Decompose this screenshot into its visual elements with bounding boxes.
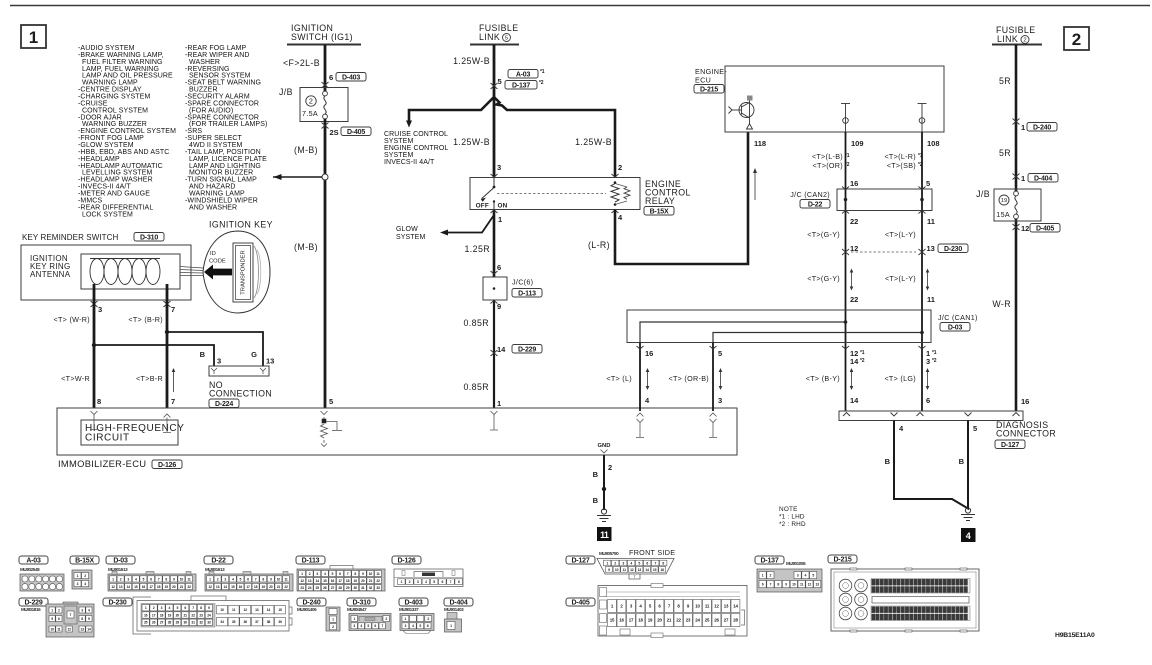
svg-text:22: 22 xyxy=(376,579,380,583)
svg-text:21: 21 xyxy=(180,585,184,589)
svg-text:<T> (LG): <T> (LG) xyxy=(884,374,916,383)
svg-text:33: 33 xyxy=(207,621,211,625)
svg-text:18: 18 xyxy=(157,585,161,589)
svg-text:D-224: D-224 xyxy=(215,401,233,408)
svg-text:ON: ON xyxy=(498,203,508,210)
svg-text:D-310: D-310 xyxy=(352,600,370,607)
svg-text:D-126: D-126 xyxy=(397,558,415,565)
svg-text:25: 25 xyxy=(705,618,710,623)
svg-text:11: 11 xyxy=(57,627,60,631)
svg-text:38: 38 xyxy=(267,620,271,624)
svg-text:<T>(L-R): <T>(L-R) xyxy=(884,152,916,161)
svg-text:J/B: J/B xyxy=(279,87,293,97)
svg-text:LAMP AND OIL PRESSURE: LAMP AND OIL PRESSURE xyxy=(82,73,173,80)
svg-text:26: 26 xyxy=(152,621,156,625)
svg-text:16: 16 xyxy=(850,179,858,188)
svg-text:(FOR TRAILER LAMPS): (FOR TRAILER LAMPS) xyxy=(189,121,267,128)
svg-text:16: 16 xyxy=(661,568,665,572)
svg-text:15A: 15A xyxy=(996,210,1010,219)
svg-text:D-22: D-22 xyxy=(211,558,226,565)
svg-text:WARNING LAMP: WARNING LAMP xyxy=(189,191,245,198)
svg-text:12: 12 xyxy=(850,244,858,253)
svg-text:13: 13 xyxy=(724,603,729,608)
svg-text:18: 18 xyxy=(346,579,350,583)
svg-text:11: 11 xyxy=(376,572,379,576)
svg-text:D-403: D-403 xyxy=(342,75,360,82)
svg-text:30: 30 xyxy=(354,586,358,590)
svg-text:14: 14 xyxy=(316,579,320,583)
svg-text:32: 32 xyxy=(199,621,203,625)
svg-text:SWITCH (IG1): SWITCH (IG1) xyxy=(291,32,353,42)
svg-text:35: 35 xyxy=(232,620,236,624)
svg-text:30: 30 xyxy=(184,621,188,625)
svg-text:16: 16 xyxy=(142,585,146,589)
svg-text:D-403: D-403 xyxy=(404,600,422,607)
svg-text:IMMOBILIZER-ECU: IMMOBILIZER-ECU xyxy=(58,458,146,469)
svg-text:13: 13 xyxy=(266,357,274,366)
svg-text:*1: *1 xyxy=(932,350,937,356)
svg-text:D-229: D-229 xyxy=(518,347,536,354)
svg-text:CIRCUIT: CIRCUIT xyxy=(85,433,130,444)
svg-text:16: 16 xyxy=(619,618,624,623)
svg-text:14: 14 xyxy=(224,585,228,589)
svg-text:9: 9 xyxy=(497,302,501,311)
svg-text:4: 4 xyxy=(966,531,971,541)
svg-text:5R: 5R xyxy=(999,148,1011,158)
svg-text:KEY REMINDER SWITCH: KEY REMINDER SWITCH xyxy=(22,233,119,242)
svg-text:21: 21 xyxy=(277,585,281,589)
svg-text:A-03: A-03 xyxy=(26,558,41,565)
svg-text:D-405: D-405 xyxy=(571,600,589,607)
svg-text:12: 12 xyxy=(111,585,115,589)
svg-text:6: 6 xyxy=(497,263,501,272)
svg-text:MONITOR BUZZER: MONITOR BUZZER xyxy=(189,170,253,177)
svg-text:-TAIL LAMP, POSITION: -TAIL LAMP, POSITION xyxy=(185,149,261,156)
svg-text:17: 17 xyxy=(149,585,153,589)
svg-text:28: 28 xyxy=(733,618,738,623)
svg-text:10: 10 xyxy=(369,572,373,576)
svg-text:MU802548: MU802548 xyxy=(20,567,40,572)
svg-text:*1 : LHD: *1 : LHD xyxy=(779,514,805,521)
svg-text:11: 11 xyxy=(927,217,935,226)
svg-text:D-113: D-113 xyxy=(518,291,536,298)
svg-text:17: 17 xyxy=(629,618,634,623)
svg-text:<T>(L-Y): <T>(L-Y) xyxy=(885,230,916,239)
svg-text:(L-R): (L-R) xyxy=(588,240,610,250)
svg-text:-SPARE CONNECTOR: -SPARE CONNECTOR xyxy=(185,100,259,107)
svg-text:MU805790: MU805790 xyxy=(599,551,619,556)
svg-text:19: 19 xyxy=(648,618,653,623)
svg-text:3: 3 xyxy=(217,357,221,366)
svg-text:D-03: D-03 xyxy=(948,325,963,332)
svg-text:*1: *1 xyxy=(860,350,865,356)
svg-text:G: G xyxy=(251,350,257,359)
svg-text:D-230: D-230 xyxy=(944,246,962,253)
svg-text:19: 19 xyxy=(165,585,169,589)
svg-text:1: 1 xyxy=(498,215,502,224)
svg-text:MU804547: MU804547 xyxy=(347,607,367,612)
svg-text:5: 5 xyxy=(718,349,722,358)
svg-text:12: 12 xyxy=(630,568,634,572)
svg-text:*2: *2 xyxy=(539,80,544,86)
svg-text:WARNING BUZZER: WARNING BUZZER xyxy=(82,121,147,128)
svg-text:24: 24 xyxy=(308,586,312,590)
svg-text:13: 13 xyxy=(216,585,220,589)
svg-text:D-310: D-310 xyxy=(140,235,158,242)
svg-text:A-03: A-03 xyxy=(516,72,531,79)
svg-text:D-22: D-22 xyxy=(808,202,823,209)
svg-text:7: 7 xyxy=(171,305,175,314)
svg-text:18: 18 xyxy=(638,618,643,623)
svg-text:W-R: W-R xyxy=(992,299,1011,309)
svg-text:20: 20 xyxy=(269,585,273,589)
svg-text:11: 11 xyxy=(232,608,235,612)
svg-text:MU801403: MU801403 xyxy=(444,607,464,612)
svg-text:D-230: D-230 xyxy=(108,600,126,607)
svg-text:-REAR WIPER AND: -REAR WIPER AND xyxy=(185,52,250,59)
svg-text:25: 25 xyxy=(316,586,320,590)
svg-text:SYSTEM: SYSTEM xyxy=(384,138,413,145)
svg-text:<T>(L-B): <T>(L-B) xyxy=(812,152,843,161)
svg-text:14: 14 xyxy=(645,568,649,572)
svg-text:23: 23 xyxy=(199,613,203,617)
svg-text:14: 14 xyxy=(267,608,271,612)
svg-text:108: 108 xyxy=(927,139,940,148)
svg-text:10: 10 xyxy=(792,583,796,587)
svg-text:10: 10 xyxy=(615,568,619,572)
svg-text:B: B xyxy=(593,496,599,505)
svg-text:-BRAKE WARNING LAMP,: -BRAKE WARNING LAMP, xyxy=(78,52,164,59)
svg-text:12: 12 xyxy=(244,608,248,612)
svg-text:RELAY: RELAY xyxy=(645,196,675,206)
svg-text:<T>(G-Y): <T>(G-Y) xyxy=(807,230,840,239)
svg-text:14: 14 xyxy=(850,357,859,366)
svg-text:GLOW: GLOW xyxy=(396,226,418,233)
svg-text:*1: *1 xyxy=(845,153,850,159)
svg-text:7: 7 xyxy=(171,397,175,406)
svg-text:CONNECTION: CONNECTION xyxy=(209,389,272,399)
svg-text:<T> (W-R): <T> (W-R) xyxy=(53,315,90,324)
svg-text:16: 16 xyxy=(1021,397,1029,406)
svg-text:26: 26 xyxy=(714,618,719,623)
svg-text:1: 1 xyxy=(1021,174,1025,183)
svg-text:7.5A: 7.5A xyxy=(302,109,318,118)
svg-text:SYSTEM: SYSTEM xyxy=(384,152,413,159)
svg-text:20: 20 xyxy=(361,579,365,583)
svg-text:21: 21 xyxy=(667,618,672,623)
svg-text:22: 22 xyxy=(676,618,681,623)
svg-text:14: 14 xyxy=(127,585,131,589)
svg-text:13: 13 xyxy=(638,568,642,572)
svg-text:14: 14 xyxy=(850,396,859,405)
svg-text:3: 3 xyxy=(926,357,930,366)
svg-text:ID: ID xyxy=(210,251,216,257)
svg-text:22: 22 xyxy=(850,217,858,226)
svg-text:31: 31 xyxy=(191,621,195,625)
svg-text:D-405: D-405 xyxy=(1036,226,1054,233)
svg-text:-HBB, EBD, ABS AND ASTC: -HBB, EBD, ABS AND ASTC xyxy=(78,149,169,156)
svg-text:J/B: J/B xyxy=(976,189,990,199)
svg-text:ANTENNA: ANTENNA xyxy=(30,270,71,279)
svg-text:26: 26 xyxy=(323,586,327,590)
svg-text:1: 1 xyxy=(1021,123,1025,132)
svg-text:16: 16 xyxy=(144,613,148,617)
svg-text:11: 11 xyxy=(187,577,190,581)
svg-text:3: 3 xyxy=(718,396,722,405)
svg-text:-CRUISE: -CRUISE xyxy=(78,100,108,107)
svg-text:6: 6 xyxy=(926,396,930,405)
svg-text:14: 14 xyxy=(733,603,738,608)
svg-text:*2: *2 xyxy=(845,162,850,168)
svg-text:<T>(L-Y): <T>(L-Y) xyxy=(885,274,916,283)
svg-text:33: 33 xyxy=(376,586,380,590)
svg-text:3: 3 xyxy=(98,305,102,314)
svg-text:18: 18 xyxy=(254,585,258,589)
svg-text:2: 2 xyxy=(1023,38,1026,44)
svg-text:<T> (OR-B): <T> (OR-B) xyxy=(668,374,709,383)
svg-text:15: 15 xyxy=(134,585,138,589)
svg-text:17: 17 xyxy=(246,585,250,589)
svg-text:D-03: D-03 xyxy=(113,558,128,565)
svg-text:MU801406: MU801406 xyxy=(297,607,317,612)
svg-text:5: 5 xyxy=(329,397,333,406)
svg-text:D-405: D-405 xyxy=(347,129,365,136)
svg-text:T: T xyxy=(633,575,635,579)
svg-text:7: 7 xyxy=(70,613,72,617)
svg-text:22: 22 xyxy=(284,585,288,589)
svg-text:D-137: D-137 xyxy=(512,83,530,90)
svg-text:<T>(OR): <T>(OR) xyxy=(813,161,843,170)
svg-text:13: 13 xyxy=(119,585,123,589)
svg-text:15: 15 xyxy=(610,618,615,623)
svg-text:5: 5 xyxy=(498,77,502,86)
svg-text:LOCK SYSTEM: LOCK SYSTEM xyxy=(82,211,133,218)
svg-text:36: 36 xyxy=(244,620,248,624)
svg-text:1: 1 xyxy=(497,399,501,408)
svg-text:<T>(SB): <T>(SB) xyxy=(887,161,916,170)
svg-text:*1: *1 xyxy=(540,69,545,75)
svg-text:34: 34 xyxy=(220,620,224,624)
svg-text:1.25W-B: 1.25W-B xyxy=(453,137,490,147)
svg-text:MU801816: MU801816 xyxy=(21,607,41,612)
svg-text:NOTE: NOTE xyxy=(779,506,798,513)
svg-text:2: 2 xyxy=(608,463,612,472)
svg-text:1.25R: 1.25R xyxy=(465,244,490,254)
svg-text:CRUISE CONTROL: CRUISE CONTROL xyxy=(384,131,448,138)
svg-text:29: 29 xyxy=(176,621,180,625)
svg-text:*1: *1 xyxy=(918,153,923,159)
svg-text:21: 21 xyxy=(369,579,373,583)
svg-text:J/C (CAN1): J/C (CAN1) xyxy=(938,313,978,322)
svg-text:B: B xyxy=(200,350,206,359)
svg-text:<T> (L): <T> (L) xyxy=(606,374,632,383)
svg-text:<F>2L-B: <F>2L-B xyxy=(283,58,320,68)
svg-text:6: 6 xyxy=(329,73,333,82)
svg-text:B-15X: B-15X xyxy=(650,209,669,216)
svg-text:D-126: D-126 xyxy=(158,462,176,469)
svg-text:8: 8 xyxy=(97,397,101,406)
svg-text:11: 11 xyxy=(600,530,609,540)
svg-text:20: 20 xyxy=(172,585,176,589)
svg-text:5: 5 xyxy=(505,36,508,42)
svg-text:1.25W-B: 1.25W-B xyxy=(453,56,490,66)
svg-text:CONNECTOR: CONNECTOR xyxy=(996,429,1056,439)
svg-text:LINK: LINK xyxy=(997,34,1018,44)
svg-text:10: 10 xyxy=(50,627,54,631)
svg-text:D-240: D-240 xyxy=(1033,125,1051,132)
svg-text:B-15X: B-15X xyxy=(75,558,94,565)
svg-text:2: 2 xyxy=(309,96,313,105)
svg-text:MU801613: MU801613 xyxy=(205,567,225,572)
svg-text:D-127: D-127 xyxy=(1001,442,1019,449)
svg-text:13: 13 xyxy=(927,244,935,253)
svg-text:10: 10 xyxy=(180,577,184,581)
svg-text:(M-B): (M-B) xyxy=(294,145,318,155)
svg-text:5R: 5R xyxy=(999,76,1011,86)
svg-text:B: B xyxy=(885,457,891,466)
svg-text:2S: 2S xyxy=(330,128,339,137)
svg-text:14: 14 xyxy=(87,627,91,631)
svg-text:B: B xyxy=(593,470,599,479)
svg-text:37: 37 xyxy=(255,620,259,624)
svg-text:27: 27 xyxy=(160,621,164,625)
svg-text:17: 17 xyxy=(338,579,342,583)
svg-text:12: 12 xyxy=(714,603,719,608)
svg-text:15: 15 xyxy=(231,585,235,589)
svg-text:MU801613: MU801613 xyxy=(108,567,128,572)
svg-text:TRANSPONDER: TRANSPONDER xyxy=(241,250,247,294)
svg-text:CODE: CODE xyxy=(209,259,226,265)
svg-text:IGNITION KEY: IGNITION KEY xyxy=(209,220,273,230)
svg-text:10: 10 xyxy=(220,608,224,612)
svg-text:0.85R: 0.85R xyxy=(464,382,489,392)
svg-text:13: 13 xyxy=(255,608,259,612)
svg-text:AND WASHER: AND WASHER xyxy=(189,204,237,211)
svg-text:27: 27 xyxy=(724,618,729,623)
svg-text:D-127: D-127 xyxy=(571,558,589,565)
svg-text:SYSTEM: SYSTEM xyxy=(396,234,425,241)
svg-text:16: 16 xyxy=(331,579,335,583)
svg-text:11: 11 xyxy=(284,577,287,581)
svg-text:12: 12 xyxy=(808,583,812,587)
svg-text:*2: *2 xyxy=(860,358,865,364)
svg-text:28: 28 xyxy=(168,621,172,625)
svg-text:24: 24 xyxy=(207,613,211,617)
svg-text:19: 19 xyxy=(1001,198,1007,204)
svg-text:ECU: ECU xyxy=(695,76,711,85)
svg-text:18: 18 xyxy=(160,613,164,617)
svg-text:32: 32 xyxy=(369,586,373,590)
svg-text:118: 118 xyxy=(754,139,766,148)
svg-text:GND: GND xyxy=(598,443,611,449)
svg-text:D-404: D-404 xyxy=(449,600,467,607)
svg-text:2: 2 xyxy=(1072,30,1081,49)
svg-text:12: 12 xyxy=(1021,224,1029,233)
svg-text:D-240: D-240 xyxy=(302,600,320,607)
svg-text:2: 2 xyxy=(618,163,622,172)
svg-text:12: 12 xyxy=(300,579,304,583)
svg-text:23: 23 xyxy=(300,586,304,590)
svg-text:23: 23 xyxy=(686,618,691,623)
svg-text:-METER AND GAUGE: -METER AND GAUGE xyxy=(78,191,150,198)
svg-text:11: 11 xyxy=(705,603,710,608)
svg-text:11: 11 xyxy=(623,568,626,572)
svg-text:D-404: D-404 xyxy=(1034,176,1052,183)
svg-text:1.25W-B: 1.25W-B xyxy=(575,137,612,147)
svg-text:13: 13 xyxy=(816,583,820,587)
svg-text:MU801337: MU801337 xyxy=(399,607,419,612)
svg-text:28: 28 xyxy=(338,586,342,590)
svg-text:39: 39 xyxy=(278,620,282,624)
svg-text:J/C(6): J/C(6) xyxy=(512,278,533,287)
svg-text:B: B xyxy=(959,457,965,466)
svg-text:13: 13 xyxy=(308,579,312,583)
svg-text:19: 19 xyxy=(262,585,266,589)
svg-text:19: 19 xyxy=(168,613,172,617)
svg-text:20: 20 xyxy=(176,613,180,617)
svg-text:22: 22 xyxy=(850,295,858,304)
svg-text:(M-B): (M-B) xyxy=(294,242,318,252)
svg-text:15: 15 xyxy=(278,608,282,612)
svg-text:29: 29 xyxy=(346,586,350,590)
svg-text:21: 21 xyxy=(184,613,188,617)
svg-text:*2 : RHD: *2 : RHD xyxy=(779,521,806,528)
svg-text:11: 11 xyxy=(800,583,803,587)
svg-text:5: 5 xyxy=(926,179,930,188)
svg-text:3: 3 xyxy=(497,163,501,172)
svg-text:*2: *2 xyxy=(932,358,937,364)
svg-text:17: 17 xyxy=(152,613,156,617)
svg-text:<T> (B-Y): <T> (B-Y) xyxy=(806,374,840,383)
svg-text:11: 11 xyxy=(927,295,935,304)
svg-text:20: 20 xyxy=(657,618,662,623)
svg-text:16: 16 xyxy=(645,349,653,358)
svg-text:13: 13 xyxy=(80,627,84,631)
svg-text:<T>B-R: <T>B-R xyxy=(136,374,163,383)
svg-text:24: 24 xyxy=(695,618,700,623)
svg-text:<T> (B-R): <T> (B-R) xyxy=(128,315,163,324)
svg-text:INVECS-II 4A/T: INVECS-II 4A/T xyxy=(384,159,435,166)
svg-text:LINK: LINK xyxy=(479,32,500,42)
svg-text:22: 22 xyxy=(187,585,191,589)
svg-text:25: 25 xyxy=(144,621,148,625)
svg-text:SENSOR SYSTEM: SENSOR SYSTEM xyxy=(189,73,251,80)
svg-text:D-215: D-215 xyxy=(700,87,718,94)
svg-text:LEVELLING SYSTEM: LEVELLING SYSTEM xyxy=(82,170,153,177)
svg-text:15: 15 xyxy=(653,568,657,572)
svg-text:31: 31 xyxy=(361,586,365,590)
svg-text:22: 22 xyxy=(191,613,195,617)
svg-text:1: 1 xyxy=(29,28,38,47)
svg-text:FRONT SIDE: FRONT SIDE xyxy=(629,548,675,557)
svg-text:14: 14 xyxy=(497,345,506,354)
svg-text:12: 12 xyxy=(208,585,212,589)
svg-text:19: 19 xyxy=(354,579,358,583)
svg-text:27: 27 xyxy=(331,586,335,590)
svg-text:H9B15E11A0: H9B15E11A0 xyxy=(1055,632,1095,639)
svg-text:ENGINE CONTROL: ENGINE CONTROL xyxy=(384,145,448,152)
svg-text:D-113: D-113 xyxy=(302,558,320,565)
svg-text:109: 109 xyxy=(851,139,864,148)
svg-text:10: 10 xyxy=(695,603,700,608)
svg-text:D-215: D-215 xyxy=(833,557,851,564)
svg-text:16: 16 xyxy=(239,585,243,589)
svg-text:D-137: D-137 xyxy=(760,558,778,565)
svg-text:0.85R: 0.85R xyxy=(464,318,489,328)
svg-text:MU801055: MU801055 xyxy=(786,561,806,566)
svg-text:12: 12 xyxy=(67,627,71,631)
svg-text:*2: *2 xyxy=(918,162,923,168)
